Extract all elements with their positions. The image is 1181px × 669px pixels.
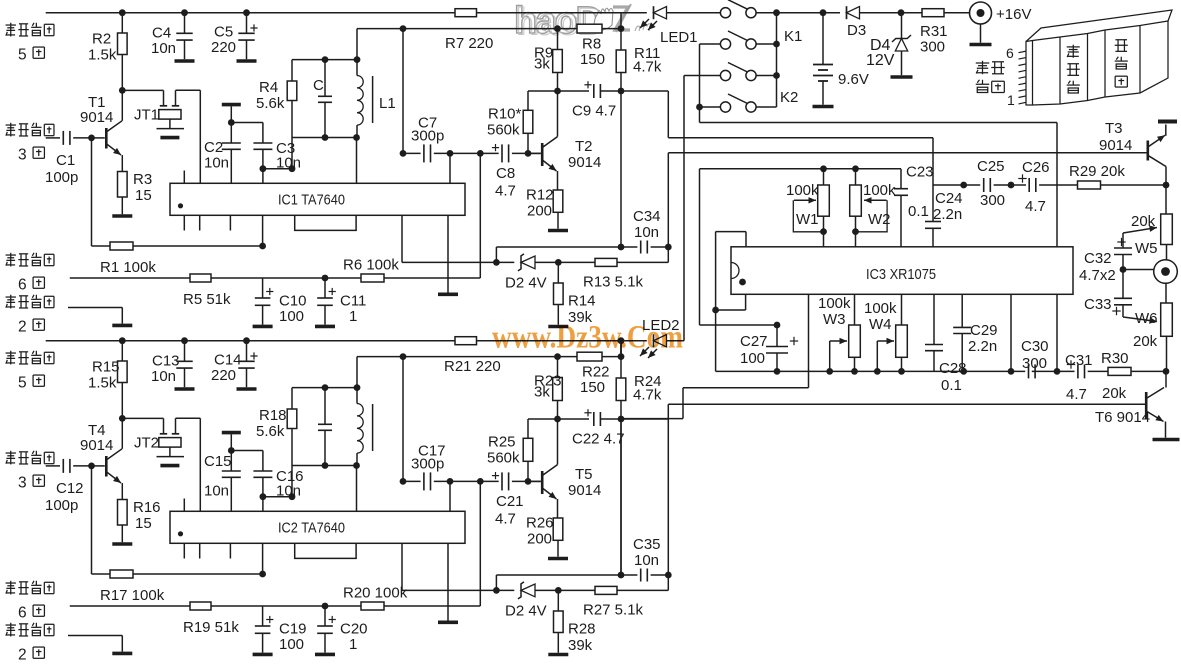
svg-text:9014: 9014 [568,154,601,171]
svg-text:6: 6 [18,277,27,294]
svg-text:300: 300 [980,192,1005,209]
svg-text:K1: K1 [784,28,802,45]
svg-text:15: 15 [135,515,152,532]
svg-text:200: 200 [527,531,552,548]
svg-text:2: 2 [18,319,27,336]
svg-text:R19 51k: R19 51k [183,619,239,636]
svg-text:10n: 10n [204,155,229,172]
svg-text:C22 4.7: C22 4.7 [572,431,625,448]
svg-text:C25: C25 [977,158,1005,175]
svg-text:D2 4V: D2 4V [505,603,547,620]
svg-text:100k: 100k [818,295,851,312]
svg-text:C33: C33 [1084,296,1112,313]
svg-text:R27 5.1k: R27 5.1k [583,601,644,618]
svg-text:39k: 39k [568,637,593,654]
svg-text:1.5k: 1.5k [88,47,117,64]
svg-text:3: 3 [18,147,27,164]
svg-text:R26: R26 [526,515,554,532]
svg-text:C26: C26 [1022,159,1050,176]
svg-text:150: 150 [580,51,605,68]
svg-text:4.7x2: 4.7x2 [1079,267,1116,284]
svg-text:C27: C27 [740,333,768,350]
svg-text:6: 6 [1006,45,1014,61]
svg-text:R31: R31 [920,23,948,40]
svg-text:D3: D3 [847,22,866,39]
svg-text:C15: C15 [204,453,232,470]
svg-text:C23: C23 [906,164,934,181]
svg-text:100k: 100k [786,182,819,199]
svg-text:C21: C21 [496,493,524,510]
svg-text:T5: T5 [575,466,593,483]
svg-text:C29: C29 [970,322,998,339]
svg-text:C2: C2 [204,139,223,156]
svg-text:R2: R2 [92,31,111,48]
svg-text:220: 220 [211,367,236,384]
svg-text:9014: 9014 [568,482,601,499]
svg-text:560k: 560k [487,450,520,467]
svg-text:R18: R18 [259,407,287,424]
svg-text:R8: R8 [582,36,601,53]
svg-text:C34: C34 [633,208,661,225]
svg-text:IC1 TA7640: IC1 TA7640 [278,192,345,209]
svg-text:100p: 100p [45,497,78,514]
svg-text:1.5k: 1.5k [88,375,117,392]
svg-text:C5: C5 [214,24,233,41]
svg-text:C20: C20 [340,621,368,638]
svg-text:+16V: +16V [996,6,1031,23]
svg-text:4.7k: 4.7k [633,59,662,76]
svg-text:R30: R30 [1101,350,1129,367]
svg-text:JT2: JT2 [134,435,159,452]
svg-text:100: 100 [279,308,304,325]
svg-text:10n: 10n [151,40,176,57]
svg-text:4.7: 4.7 [495,183,516,200]
svg-text:100k: 100k [864,300,897,317]
svg-text:T2: T2 [575,138,593,155]
svg-text:10n: 10n [276,483,301,500]
svg-text:2: 2 [18,647,27,664]
svg-text:R5 51k: R5 51k [183,291,231,308]
svg-text:C4: C4 [152,25,171,42]
svg-text:1: 1 [349,308,357,325]
svg-text:3k: 3k [534,384,550,401]
svg-text:C35: C35 [633,536,661,553]
svg-text:150: 150 [580,379,605,396]
svg-text:R28: R28 [568,621,596,638]
svg-text:R16: R16 [133,499,161,516]
svg-text:100: 100 [279,636,304,653]
svg-text:1: 1 [349,636,357,653]
svg-text:JT1: JT1 [134,107,159,124]
svg-text:220: 220 [211,39,236,56]
svg-text:R7 220: R7 220 [445,35,493,52]
svg-text:R22: R22 [582,364,610,381]
svg-text:IC3 XR1075: IC3 XR1075 [866,266,936,283]
svg-text:K2: K2 [780,89,798,106]
svg-text:C14: C14 [214,352,242,369]
svg-text:3k: 3k [534,56,550,73]
svg-text:C13: C13 [152,353,180,370]
svg-text:L1: L1 [379,95,396,112]
svg-text:20k: 20k [1102,385,1127,402]
svg-text:R1 100k: R1 100k [100,259,156,276]
svg-text:4.7: 4.7 [1066,386,1087,403]
svg-text:1: 1 [1007,92,1015,108]
svg-text:C19: C19 [279,621,307,638]
svg-text:R14: R14 [568,293,596,310]
svg-text:5: 5 [18,47,27,64]
svg-text:5: 5 [18,375,27,392]
svg-text:4.7: 4.7 [1025,198,1046,215]
svg-text:LED1: LED1 [660,29,698,46]
svg-text:300p: 300p [411,128,444,145]
svg-text:R10*: R10* [488,106,522,123]
svg-text:R12: R12 [526,187,554,204]
svg-text:C24: C24 [935,190,963,207]
svg-text:10n: 10n [634,224,659,241]
svg-text:C12: C12 [56,480,84,497]
svg-text:300p: 300p [411,456,444,473]
svg-text:R21 220: R21 220 [444,358,501,375]
svg-text:R3: R3 [133,171,152,188]
svg-text:R15: R15 [92,359,120,376]
svg-text:9.6V: 9.6V [838,71,869,88]
svg-text:C8: C8 [496,165,515,182]
svg-text:200: 200 [527,203,552,220]
svg-text:10n: 10n [634,552,659,569]
svg-text:15: 15 [135,187,152,204]
svg-text:R13 5.1k: R13 5.1k [583,273,644,290]
svg-text:D2 4V: D2 4V [505,275,547,292]
svg-text:W4: W4 [869,316,892,333]
svg-text:560k: 560k [487,122,520,139]
svg-text:www.Dz3w.Com: www.Dz3w.Com [492,320,683,356]
svg-text:W5: W5 [1135,240,1158,257]
svg-text:5.6k: 5.6k [256,95,285,112]
svg-text:C1: C1 [56,152,75,169]
svg-text:9014: 9014 [80,437,113,454]
svg-text:4.7: 4.7 [495,511,516,528]
svg-text:R17 100k: R17 100k [100,587,165,604]
svg-text:4.7k: 4.7k [633,387,662,404]
svg-text:C32: C32 [1084,250,1112,267]
svg-text:100: 100 [740,350,765,367]
svg-text:R4: R4 [259,79,278,96]
svg-text:9014: 9014 [80,109,113,126]
svg-text:9014: 9014 [1099,137,1132,154]
svg-text:0.1: 0.1 [908,203,929,220]
svg-text:10n: 10n [276,155,301,172]
svg-text:W3: W3 [823,311,846,328]
svg-text:T6 9014: T6 9014 [1095,409,1150,426]
svg-text:10n: 10n [204,483,229,500]
svg-text:C10: C10 [279,293,307,310]
svg-text:R20 100k: R20 100k [343,585,408,602]
svg-text:3: 3 [18,475,27,492]
svg-text:W1: W1 [796,211,819,228]
svg-text:R29 20k: R29 20k [1069,163,1125,180]
svg-text:T3: T3 [1105,120,1123,137]
svg-text:20k: 20k [1133,333,1158,350]
svg-text:2.2n: 2.2n [968,338,997,355]
svg-text:0.1: 0.1 [941,377,962,394]
svg-text:300: 300 [1022,355,1047,372]
svg-text:6: 6 [18,605,27,622]
svg-text:C30: C30 [1021,338,1049,355]
svg-text:C11: C11 [340,293,366,310]
svg-text:10n: 10n [151,368,176,385]
svg-text:R25: R25 [488,434,516,451]
svg-text:IC2 TA7640: IC2 TA7640 [278,520,345,537]
svg-text:C: C [313,77,324,94]
svg-text:2.2n: 2.2n [933,206,962,223]
svg-text:300: 300 [920,39,945,56]
svg-text:5.6k: 5.6k [256,423,285,440]
svg-text:100k: 100k [863,182,896,199]
svg-text:W2: W2 [868,211,891,228]
svg-text:C31: C31 [1065,352,1093,369]
svg-text:100p: 100p [45,169,78,186]
svg-text:R6 100k: R6 100k [343,257,399,274]
svg-text:12V: 12V [866,52,895,69]
svg-text:C9 4.7: C9 4.7 [572,103,616,120]
